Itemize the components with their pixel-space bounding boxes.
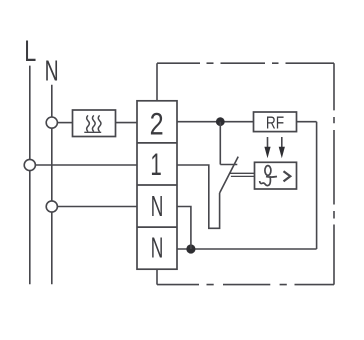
wire RF to right side xyxy=(297,121,317,123)
svg-text:N: N xyxy=(151,192,164,223)
wire N rail to terminal N xyxy=(57,206,137,208)
svg-text:RF: RF xyxy=(266,114,284,133)
RF receiver module xyxy=(254,112,297,133)
thermostat actuator (ϑ&gt;) xyxy=(255,162,297,189)
wire N rail to heater xyxy=(57,122,72,124)
heater (heating load) E1 xyxy=(73,110,116,137)
enclosure boundary right (dash-dot) xyxy=(333,63,335,284)
enclosure boundary top (dash-dot) xyxy=(157,62,334,64)
node on L rail (terminal 1 branch) xyxy=(24,159,35,170)
enclosure boundary left (dash-dot) xyxy=(156,63,158,284)
wire terminal 1 to relay pivot xyxy=(177,165,220,228)
svg-text:N: N xyxy=(151,233,164,264)
RF signal arrow right xyxy=(279,137,285,158)
wire terminal N (3rd) to N return xyxy=(177,207,191,250)
svg-text:2: 2 xyxy=(150,107,164,142)
relay contact K1 (break contact) xyxy=(220,122,239,193)
enclosure boundary bottom (dash-dot) xyxy=(157,284,334,286)
terminal block X1 xyxy=(137,101,177,269)
wire bottom N return xyxy=(177,248,317,250)
wire L rail xyxy=(29,66,31,285)
wire L rail to terminal 1 xyxy=(35,164,137,166)
node on N rail (heater branch) xyxy=(46,117,57,128)
junction dot on wire 2 xyxy=(216,117,225,126)
svg-text:L: L xyxy=(24,34,36,68)
actuator link (double line) xyxy=(230,173,255,176)
wire heater to terminal 2 xyxy=(116,122,138,124)
node on N rail (terminal N branch) xyxy=(46,201,57,212)
wire right vertical (RF return) xyxy=(316,122,318,249)
junction dot on N return xyxy=(186,244,195,253)
RF signal arrow left xyxy=(264,137,270,158)
wire terminal 2 to RF xyxy=(177,121,254,123)
svg-text:N: N xyxy=(45,56,59,88)
wire N rail xyxy=(51,85,53,285)
svg-text:1: 1 xyxy=(150,146,161,182)
